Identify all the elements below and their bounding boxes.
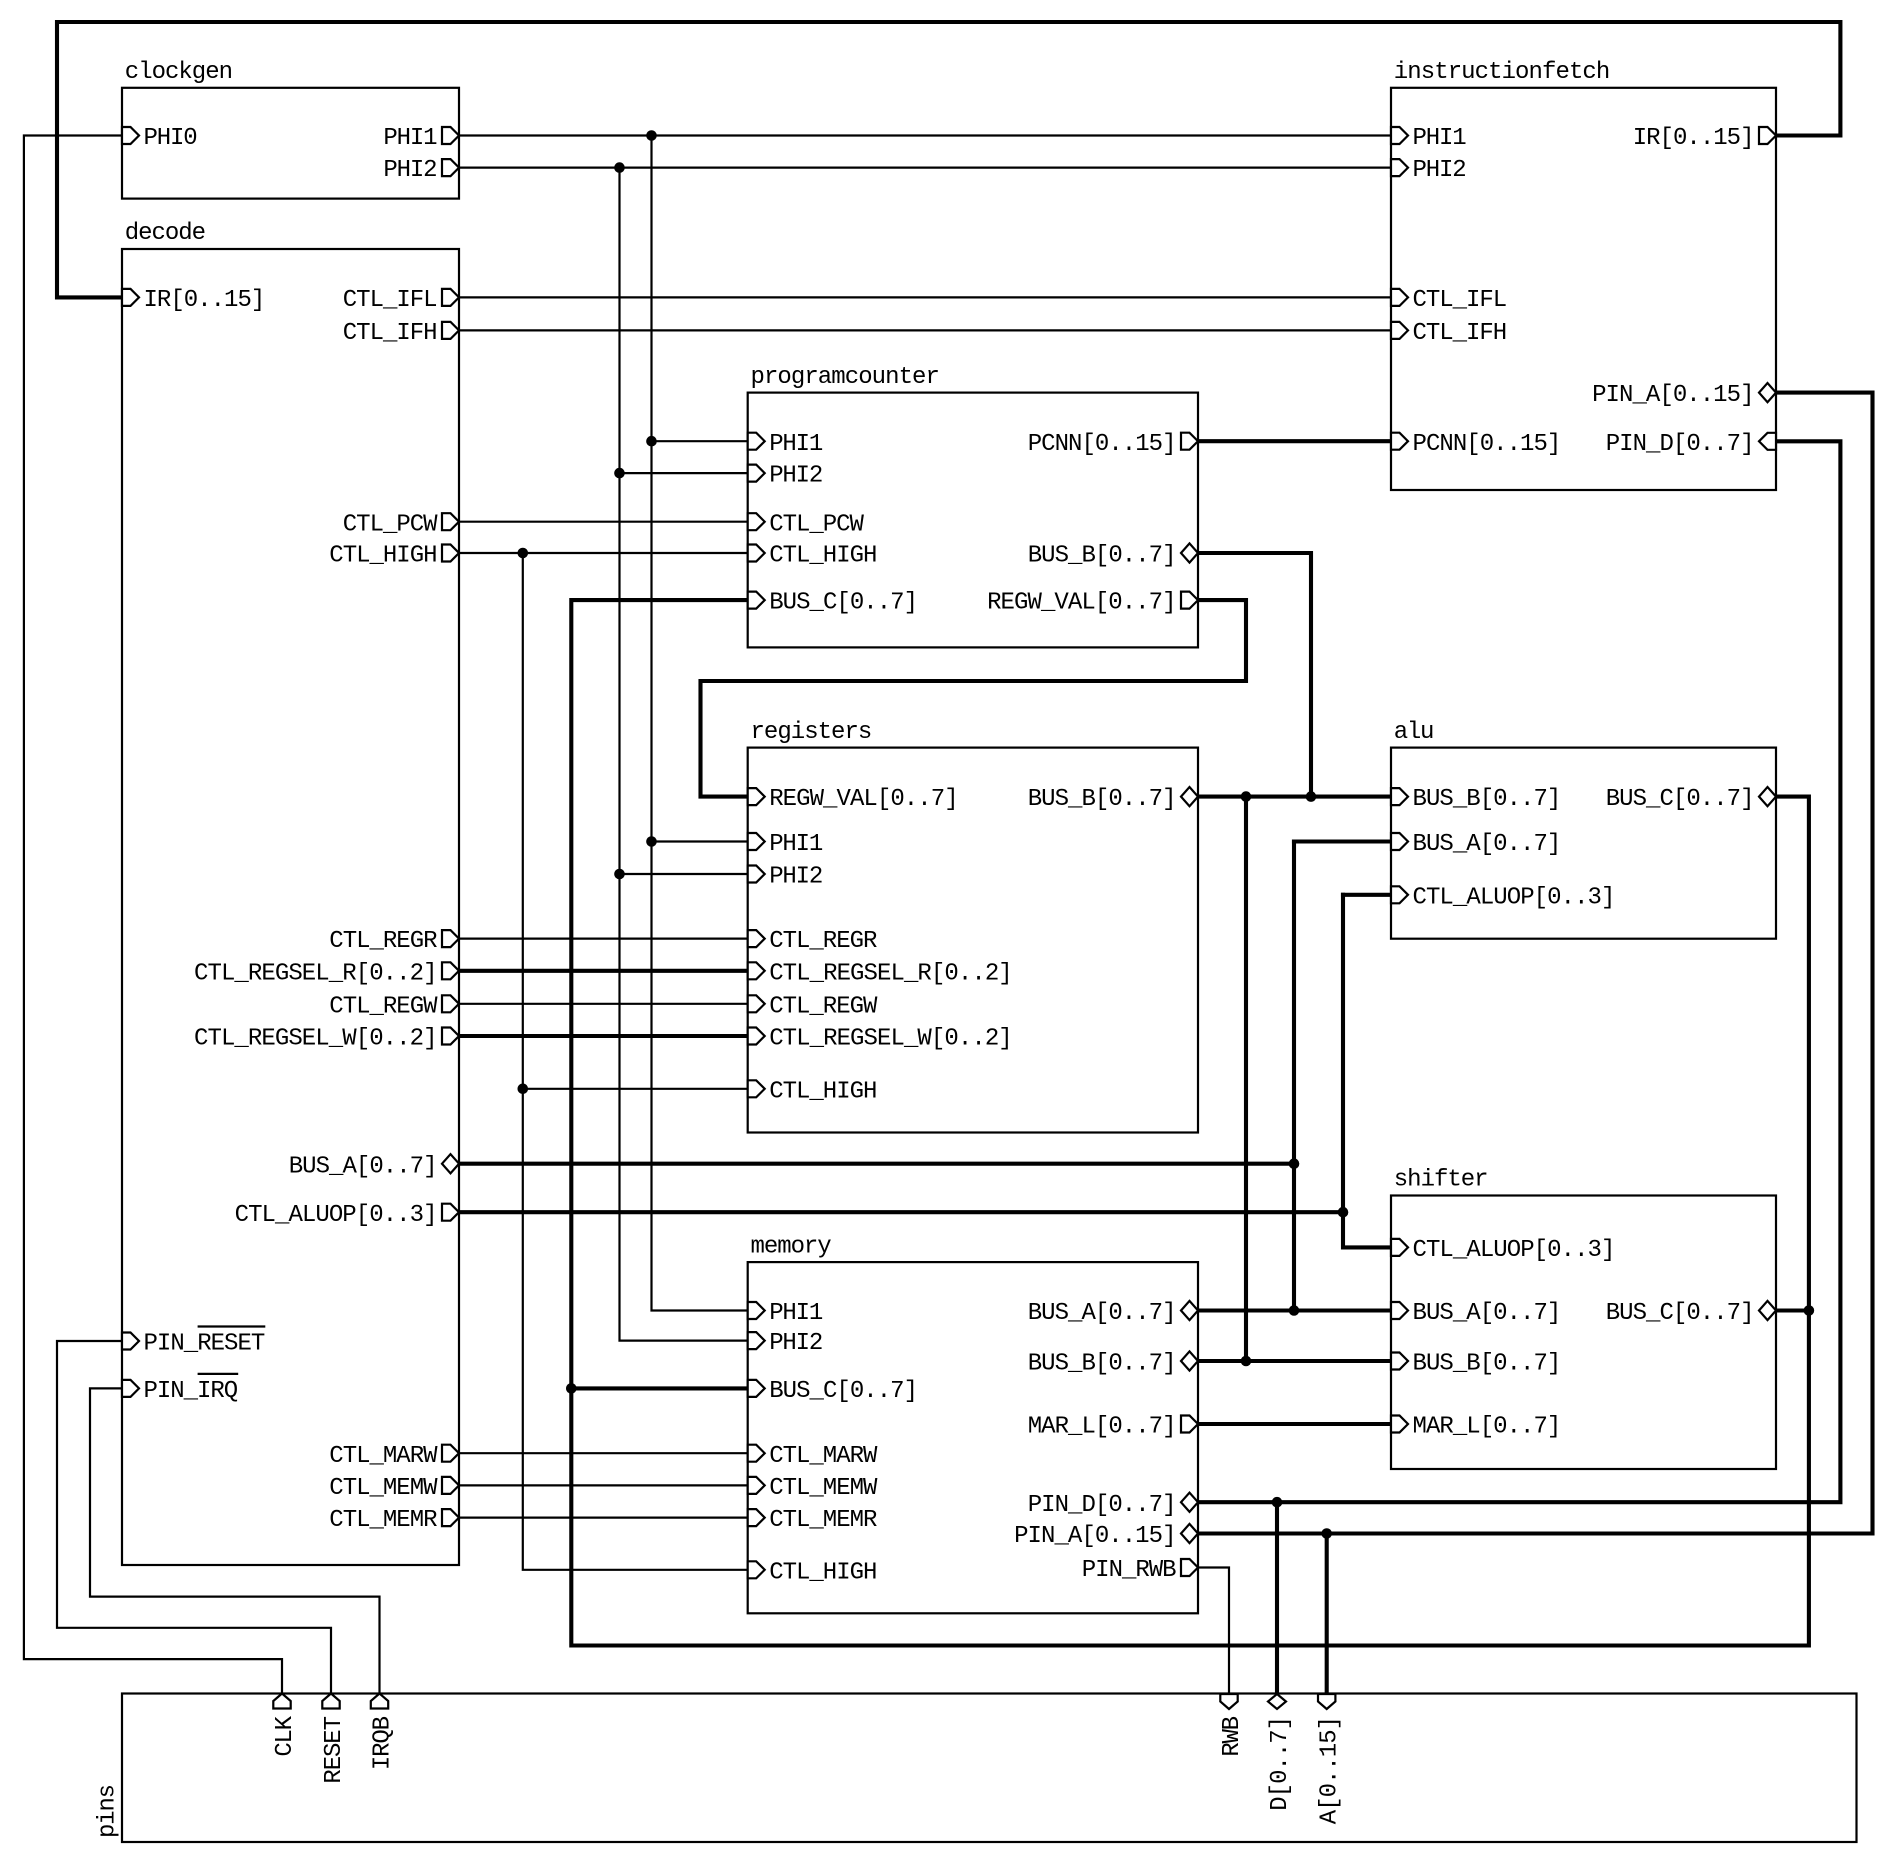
junction PIN_A at pins branch xyxy=(1321,1528,1332,1539)
svg-text:CTL_REGSEL_W[0..2]: CTL_REGSEL_W[0..2] xyxy=(769,1026,1013,1053)
port CTL_MEMR (decode) xyxy=(329,1507,459,1534)
port CTL_HIGH (decode) xyxy=(329,543,459,570)
port CTL_MARW (decode) xyxy=(329,1443,459,1470)
svg-text:CTL_REGSEL_R[0..2]: CTL_REGSEL_R[0..2] xyxy=(194,960,438,987)
svg-text:CTL_PCW: CTL_PCW xyxy=(343,511,438,538)
svg-text:PIN_RESET: PIN_RESET xyxy=(144,1331,266,1358)
svg-text:CTL_REGR: CTL_REGR xyxy=(769,928,877,955)
port CTL_IFH (decode) xyxy=(343,320,459,347)
block shifter box xyxy=(1391,1196,1776,1470)
svg-text:instructionfetch: instructionfetch xyxy=(1394,59,1611,86)
svg-text:CLK: CLK xyxy=(272,1715,299,1756)
wire CTL_REGSEL_W bus xyxy=(459,1034,748,1038)
port CTL_MEMW (memory) xyxy=(748,1475,878,1502)
svg-text:PHI1: PHI1 xyxy=(1413,125,1467,152)
port CTL_REGW (decode) xyxy=(329,993,459,1020)
wire PHI2 branch to programcounter xyxy=(620,472,748,474)
port CTL_HIGH (registers) xyxy=(748,1078,878,1105)
junction PHI2 at registers branch xyxy=(614,869,625,880)
wire REGW_VAL bus xyxy=(701,600,1247,797)
port CTL_IFH (instructionfetch) xyxy=(1391,320,1507,347)
port PHI2 (programcounter) xyxy=(748,463,824,490)
svg-text:PHI1: PHI1 xyxy=(769,431,823,458)
pin IRQB (pins) xyxy=(370,1694,397,1771)
wire BUS_A row memory to shifter xyxy=(1198,1308,1391,1312)
svg-text:CTL_HIGH: CTL_HIGH xyxy=(329,543,437,570)
wire CTL_MARW net xyxy=(459,1452,748,1454)
port MAR_L[0..7] (memory) xyxy=(1028,1414,1198,1441)
svg-text:IRQB: IRQB xyxy=(370,1716,397,1770)
port PHI2 (memory) xyxy=(748,1330,824,1357)
port PHI2 (instructionfetch) xyxy=(1391,157,1467,184)
wire IRQB net xyxy=(90,1388,380,1693)
wire PHI1 branch to registers xyxy=(652,840,748,842)
svg-text:REGW_VAL[0..7]: REGW_VAL[0..7] xyxy=(769,786,958,813)
block pins label xyxy=(95,1784,122,1838)
svg-text:PHI2: PHI2 xyxy=(1413,157,1467,184)
port CTL_REGSEL_W[0..2] (decode) xyxy=(194,1026,459,1053)
port PIN_RESET (decode) xyxy=(122,1327,265,1358)
junction PHI2 at clockgen output row xyxy=(614,162,625,173)
svg-text:BUS_B[0..7]: BUS_B[0..7] xyxy=(1413,1351,1562,1378)
wire PHI1 net vertical xyxy=(652,136,748,1311)
svg-text:CTL_REGW: CTL_REGW xyxy=(329,993,438,1020)
svg-text:CTL_REGR: CTL_REGR xyxy=(329,928,437,955)
wire BUS_B bus (registers to alu) xyxy=(1198,795,1391,799)
svg-text:MAR_L[0..7]: MAR_L[0..7] xyxy=(1413,1414,1562,1441)
junction CTL_HIGH at decode row xyxy=(518,548,529,559)
svg-text:BUS_A[0..7]: BUS_A[0..7] xyxy=(1413,831,1562,858)
svg-text:PIN_A[0..15]: PIN_A[0..15] xyxy=(1014,1523,1176,1550)
wire PIN_D bus xyxy=(1198,441,1840,1502)
block programcounter box xyxy=(748,393,1198,648)
svg-text:D[0..7]: D[0..7] xyxy=(1267,1716,1294,1811)
wire CTL_IFL net xyxy=(459,296,1391,298)
pin RWB (pins) xyxy=(1219,1694,1246,1757)
block alu box xyxy=(1391,748,1776,939)
wire BUS_C branch to shifter xyxy=(1776,1308,1809,1312)
svg-text:CTL_IFL: CTL_IFL xyxy=(1413,287,1508,314)
wire CTL_IFH net xyxy=(459,329,1391,331)
junction PHI2 at programcounter branch xyxy=(614,468,625,479)
block clockgen label xyxy=(125,59,233,86)
svg-text:PIN_D[0..7]: PIN_D[0..7] xyxy=(1028,1492,1177,1519)
port PHI2 (registers) xyxy=(748,864,824,891)
junction PIN_D at pins branch xyxy=(1272,1497,1283,1508)
svg-text:RWB: RWB xyxy=(1219,1716,1246,1757)
port BUS_C[0..7] (alu) xyxy=(1606,786,1776,813)
port PHI1 (registers) xyxy=(748,831,824,858)
svg-text:shifter: shifter xyxy=(1394,1167,1489,1194)
svg-text:programcounter: programcounter xyxy=(751,364,940,391)
port REGW_VAL[0..7] (registers) xyxy=(748,786,959,813)
block clockgen box xyxy=(122,88,459,199)
port CTL_PCW (decode) xyxy=(343,511,459,538)
port PHI1 (programcounter) xyxy=(748,431,824,458)
block registers label xyxy=(751,719,873,746)
port BUS_A[0..7] (decode) xyxy=(289,1153,459,1180)
svg-text:CTL_IFH: CTL_IFH xyxy=(1413,320,1508,347)
port CTL_HIGH (memory) xyxy=(748,1559,878,1586)
pin CLK (pins) xyxy=(272,1694,299,1757)
svg-text:memory: memory xyxy=(751,1233,832,1260)
svg-text:PHI1: PHI1 xyxy=(383,125,437,152)
port CTL_PCW (programcounter) xyxy=(748,511,865,538)
block memory box xyxy=(748,1262,1198,1613)
port PIN_A[0..15] (instructionfetch) xyxy=(1592,382,1776,409)
junction PHI1 at registers branch xyxy=(646,836,657,847)
svg-text:PHI1: PHI1 xyxy=(769,1300,823,1327)
port CTL_MEMR (memory) xyxy=(748,1507,878,1534)
port CTL_MEMW (decode) xyxy=(329,1475,459,1502)
junction BUS_C at shifter row xyxy=(1804,1305,1815,1316)
block instructionfetch label xyxy=(1394,59,1611,86)
svg-text:CTL_IFL: CTL_IFL xyxy=(343,287,438,314)
port CTL_IFL (instructionfetch) xyxy=(1391,287,1507,314)
wire CTL_ALUOP bus (decode out) xyxy=(459,1210,1343,1214)
svg-text:CTL_PCW: CTL_PCW xyxy=(769,511,864,538)
port IR[0..15] (decode) xyxy=(122,287,265,314)
svg-text:PIN_IRQ: PIN_IRQ xyxy=(144,1378,239,1405)
svg-text:CTL_MARW: CTL_MARW xyxy=(329,1443,438,1470)
svg-text:CTL_HIGH: CTL_HIGH xyxy=(769,1078,877,1105)
port CTL_REGR (decode) xyxy=(329,928,459,955)
wire CTL_REGW net xyxy=(459,1003,748,1005)
wire BUS_C branch to memory xyxy=(571,1386,747,1390)
port MAR_L[0..7] (shifter) xyxy=(1391,1414,1561,1441)
block pins box xyxy=(122,1694,1857,1843)
junction BUS_C at memory branch xyxy=(566,1383,577,1394)
port PIN_RWB (memory) xyxy=(1082,1557,1198,1584)
svg-text:PHI2: PHI2 xyxy=(383,157,437,184)
wire BUS_B vertical to memory/shifter row xyxy=(1244,797,1248,1361)
port CTL_REGSEL_R[0..2] (decode) xyxy=(194,960,459,987)
wire CTL_REGR net xyxy=(459,937,748,939)
port IR[0..15] (instructionfetch) xyxy=(1633,125,1776,152)
port REGW_VAL[0..7] (programcounter) xyxy=(987,590,1198,617)
port BUS_B[0..7] (memory) xyxy=(1028,1351,1198,1378)
wire PIN_RWB net xyxy=(1198,1568,1229,1694)
port PIN_D[0..7] (instructionfetch) xyxy=(1606,431,1776,458)
port CTL_REGW (registers) xyxy=(748,993,878,1020)
block decode label xyxy=(125,220,206,247)
junction BUS_B at registers output row (right) xyxy=(1306,791,1317,802)
svg-text:PHI2: PHI2 xyxy=(769,463,823,490)
wire CTL_MEMR net xyxy=(459,1516,748,1518)
port PCNN[0..15] (programcounter) xyxy=(1028,431,1198,458)
wire BUS_B row memory to shifter xyxy=(1198,1359,1391,1363)
wire CTL_ALUOP to alu xyxy=(1343,893,1391,897)
svg-text:PHI1: PHI1 xyxy=(769,831,823,858)
svg-text:CTL_IFH: CTL_IFH xyxy=(343,320,438,347)
svg-text:BUS_C[0..7]: BUS_C[0..7] xyxy=(769,590,918,617)
wire PHI1 branch to programcounter xyxy=(652,440,748,442)
svg-text:PCNN[0..15]: PCNN[0..15] xyxy=(1028,431,1177,458)
wire BUS_A vertical xyxy=(1292,842,1296,1311)
port CTL_HIGH (programcounter) xyxy=(748,543,878,570)
junction BUS_B at memory row xyxy=(1241,1356,1252,1367)
port PIN_A[0..15] (memory) xyxy=(1014,1523,1198,1550)
port CTL_REGSEL_W[0..2] (registers) xyxy=(748,1026,1013,1053)
block instructionfetch box xyxy=(1391,88,1776,490)
svg-text:MAR_L[0..7]: MAR_L[0..7] xyxy=(1028,1414,1177,1441)
svg-text:BUS_B[0..7]: BUS_B[0..7] xyxy=(1028,786,1177,813)
wire BUS_A to alu xyxy=(1294,839,1391,843)
wire PIN_A branch to pins xyxy=(1325,1534,1329,1694)
block shifter label xyxy=(1394,1167,1489,1194)
port PIN_D[0..7] (memory) xyxy=(1028,1492,1198,1519)
svg-text:CTL_REGW: CTL_REGW xyxy=(769,993,878,1020)
svg-text:PIN_RWB: PIN_RWB xyxy=(1082,1557,1177,1584)
port CTL_ALUOP[0..3] (shifter) xyxy=(1391,1237,1615,1264)
svg-text:CTL_MEMW: CTL_MEMW xyxy=(329,1475,438,1502)
wire CTL_HIGH net (decode to programcounter) xyxy=(459,552,748,554)
svg-text:PIN_D[0..7]: PIN_D[0..7] xyxy=(1606,431,1755,458)
svg-text:CTL_MARW: CTL_MARW xyxy=(769,1443,878,1470)
junction PHI1 at clockgen output row xyxy=(646,130,657,141)
svg-text:CTL_MEMW: CTL_MEMW xyxy=(769,1475,878,1502)
port BUS_B[0..7] (alu) xyxy=(1391,786,1561,813)
wire CTL_REGSEL_R bus xyxy=(459,969,748,973)
svg-text:CTL_HIGH: CTL_HIGH xyxy=(769,1559,877,1586)
svg-text:PHI2: PHI2 xyxy=(769,1330,823,1357)
port CTL_REGSEL_R[0..2] (registers) xyxy=(748,960,1013,987)
svg-text:PHI2: PHI2 xyxy=(769,864,823,891)
svg-text:PHI0: PHI0 xyxy=(144,125,198,152)
svg-text:PIN_A[0..15]: PIN_A[0..15] xyxy=(1592,382,1754,409)
port PHI1 (instructionfetch) xyxy=(1391,125,1467,152)
block alu label xyxy=(1394,719,1435,746)
pin RESET (pins) xyxy=(321,1694,348,1784)
port BUS_C[0..7] (programcounter) xyxy=(748,590,918,617)
svg-text:pins: pins xyxy=(95,1784,122,1838)
port PCNN[0..15] (instructionfetch) xyxy=(1391,431,1561,458)
svg-text:REGW_VAL[0..7]: REGW_VAL[0..7] xyxy=(987,590,1176,617)
wire PHI1 net horizontal xyxy=(459,134,1391,136)
block registers box xyxy=(748,748,1198,1133)
port CTL_ALUOP[0..3] (alu) xyxy=(1391,884,1615,911)
block programcounter label xyxy=(751,364,940,391)
port BUS_A[0..7] (shifter) xyxy=(1391,1300,1561,1327)
port PHI1 (clockgen) xyxy=(383,125,459,152)
port BUS_A[0..7] (alu) xyxy=(1391,831,1561,858)
junction BUS_A at decode output row xyxy=(1289,1158,1300,1169)
svg-text:BUS_C[0..7]: BUS_C[0..7] xyxy=(1606,786,1755,813)
svg-text:CTL_ALUOP[0..3]: CTL_ALUOP[0..3] xyxy=(1413,1237,1616,1264)
svg-text:CTL_MEMR: CTL_MEMR xyxy=(329,1507,437,1534)
port CTL_REGR (registers) xyxy=(748,928,878,955)
wire BUS_C bus (programcounter side) xyxy=(571,600,1809,1645)
wire RESET net xyxy=(57,1341,331,1694)
svg-text:CTL_REGSEL_W[0..2]: CTL_REGSEL_W[0..2] xyxy=(194,1026,438,1053)
svg-text:registers: registers xyxy=(751,719,873,746)
port BUS_B[0..7] (shifter) xyxy=(1391,1351,1561,1378)
port PHI2 (clockgen) xyxy=(383,157,459,184)
port BUS_B[0..7] (registers) xyxy=(1028,786,1198,813)
svg-text:A[0..15]: A[0..15] xyxy=(1317,1716,1344,1824)
block memory label xyxy=(751,1233,832,1260)
port CTL_ALUOP[0..3] (decode) xyxy=(235,1202,459,1229)
svg-text:BUS_A[0..7]: BUS_A[0..7] xyxy=(1413,1300,1562,1327)
block decode box xyxy=(122,249,459,1565)
junction CTL_HIGH at registers branch xyxy=(518,1084,529,1095)
svg-text:CTL_ALUOP[0..3]: CTL_ALUOP[0..3] xyxy=(235,1202,438,1229)
svg-text:RESET: RESET xyxy=(321,1716,348,1784)
port PHI1 (memory) xyxy=(748,1300,824,1327)
junction BUS_B at registers output row (left) xyxy=(1241,791,1252,802)
port PIN_IRQ (decode) xyxy=(122,1374,238,1405)
svg-text:alu: alu xyxy=(1394,719,1435,746)
svg-text:IR[0..15]: IR[0..15] xyxy=(144,287,266,314)
svg-text:clockgen: clockgen xyxy=(125,59,233,86)
pin A[0..15] (pins) xyxy=(1317,1694,1344,1824)
svg-text:CTL_MEMR: CTL_MEMR xyxy=(769,1507,877,1534)
svg-text:BUS_C[0..7]: BUS_C[0..7] xyxy=(1606,1300,1755,1327)
port CTL_MARW (memory) xyxy=(748,1443,878,1470)
wire CTL_HIGH vertical xyxy=(523,553,748,1570)
svg-text:BUS_B[0..7]: BUS_B[0..7] xyxy=(1028,543,1177,570)
port CTL_IFL (decode) xyxy=(343,287,459,314)
wire IR bus (instructionfetch IR out to decode IR in) xyxy=(57,22,1840,297)
wire CTL_ALUOP vertical xyxy=(1343,895,1391,1248)
svg-text:CTL_HIGH: CTL_HIGH xyxy=(769,543,877,570)
wire CTL_HIGH branch to registers xyxy=(523,1088,748,1090)
port BUS_A[0..7] (memory) xyxy=(1028,1300,1198,1327)
wire PCNN bus xyxy=(1198,439,1391,443)
junction CTL_ALUOP at decode output row xyxy=(1338,1207,1349,1218)
svg-text:decode: decode xyxy=(125,220,206,247)
port PHI0 (clockgen) xyxy=(122,125,198,152)
wire PIN_D branch to pins xyxy=(1275,1502,1279,1693)
svg-text:BUS_B[0..7]: BUS_B[0..7] xyxy=(1028,1351,1177,1378)
wire PHI2 net vertical xyxy=(620,168,748,1341)
pin D[0..7] (pins) xyxy=(1267,1694,1294,1811)
svg-text:CTL_ALUOP[0..3]: CTL_ALUOP[0..3] xyxy=(1413,884,1616,911)
wire CTL_MEMW net xyxy=(459,1484,748,1486)
wire PIN_A bus xyxy=(1198,393,1873,1534)
svg-text:CTL_REGSEL_R[0..2]: CTL_REGSEL_R[0..2] xyxy=(769,960,1013,987)
junction PHI1 at programcounter branch xyxy=(646,436,657,447)
junction BUS_A at memory row xyxy=(1289,1305,1300,1316)
port BUS_C[0..7] (memory) xyxy=(748,1378,918,1405)
svg-text:IR[0..15]: IR[0..15] xyxy=(1633,125,1755,152)
svg-text:BUS_C[0..7]: BUS_C[0..7] xyxy=(769,1378,918,1405)
wire BUS_A bus (decode out) xyxy=(459,1162,1294,1166)
svg-text:BUS_B[0..7]: BUS_B[0..7] xyxy=(1413,786,1562,813)
svg-text:PCNN[0..15]: PCNN[0..15] xyxy=(1413,431,1562,458)
wire PHI2 branch to registers xyxy=(620,873,748,875)
wire MAR_L bus xyxy=(1198,1422,1391,1426)
svg-text:BUS_A[0..7]: BUS_A[0..7] xyxy=(289,1153,438,1180)
wire PHI2 net horizontal xyxy=(459,167,1391,169)
wire CLK net (pins CLK to clockgen PHI0) xyxy=(24,136,282,1694)
port BUS_B[0..7] (programcounter) xyxy=(1028,543,1198,570)
wire CTL_PCW net xyxy=(459,521,748,523)
port BUS_C[0..7] (shifter) xyxy=(1606,1300,1776,1327)
wire BUS_B vertical to programcounter xyxy=(1198,553,1311,797)
svg-text:BUS_A[0..7]: BUS_A[0..7] xyxy=(1028,1300,1177,1327)
